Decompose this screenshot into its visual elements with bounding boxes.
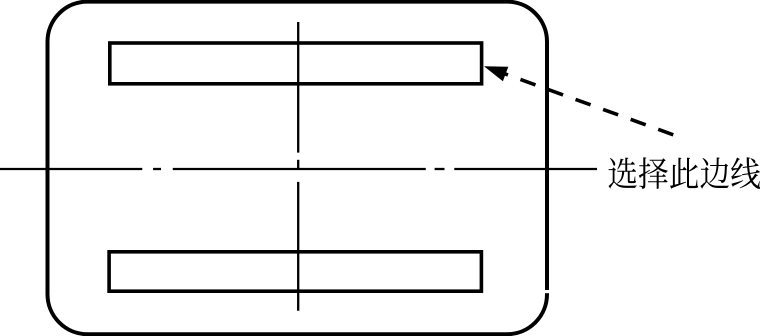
horizontal centerline segment 3 / leader line to label	[454, 168, 597, 170]
dashed leader line	[493, 70, 675, 136]
leader arrowhead	[484, 66, 508, 81]
text char 线	[731, 157, 760, 189]
slot top rectangle	[110, 43, 482, 84]
outline segment gap (right edge artifact)	[544, 290, 550, 293]
vertical centerline segment 2	[297, 182, 299, 311]
vertical centerline segment 1	[297, 22, 299, 153]
vertical centerline dot	[297, 160, 299, 170]
horizontal centerline dot 2	[435, 168, 445, 170]
text char 选	[609, 158, 637, 189]
text char 择	[639, 157, 668, 189]
part outline: rounded rectangle	[48, 2, 548, 335]
horizontal centerline dot 1	[153, 168, 161, 170]
slot bottom rectangle	[109, 252, 481, 291]
text char 边	[700, 158, 729, 189]
horizontal centerline segment 2	[173, 168, 426, 170]
text char 此	[670, 158, 698, 189]
horizontal centerline segment 1	[0, 168, 142, 170]
